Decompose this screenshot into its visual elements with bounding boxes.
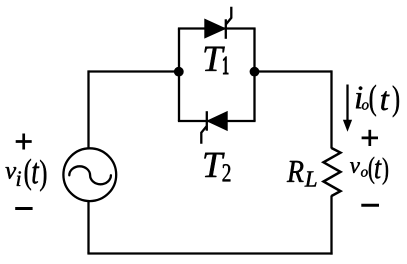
node right junction	[250, 67, 260, 77]
wire right vertical lower	[330, 196, 332, 255]
label RL	[287, 161, 317, 187]
arrow io	[343, 85, 352, 132]
label T2	[204, 153, 230, 182]
label vi(t)	[5, 159, 46, 192]
label vo(t)	[350, 157, 388, 185]
thyristor T2	[201, 111, 227, 144]
wire right vertical upper	[330, 70, 332, 148]
wire thyristor branch top horizontal	[178, 27, 256, 29]
wire thyristor branch bottom horizontal	[178, 120, 256, 122]
ac source V1 circle	[63, 148, 116, 201]
node left junction	[174, 67, 184, 77]
label plus left	[16, 134, 32, 150]
wire left vertical upper	[87, 70, 89, 148]
wire thyristor branch left vertical	[178, 29, 180, 122]
wire thyristor branch right vertical	[253, 29, 255, 122]
label minus left	[15, 207, 32, 210]
wire left vertical lower	[87, 201, 89, 253]
label plus right	[362, 130, 378, 146]
label T1	[204, 47, 228, 74]
label minus right	[361, 204, 379, 207]
label io(t)	[356, 85, 399, 118]
wire bottom horizontal	[87, 252, 332, 254]
resistor RL zigzag	[324, 148, 341, 196]
thyristor T1	[205, 7, 232, 39]
sine wave	[69, 166, 111, 184]
wire top horizontal right segment	[254, 70, 332, 72]
wire top horizontal left segment	[89, 70, 181, 72]
